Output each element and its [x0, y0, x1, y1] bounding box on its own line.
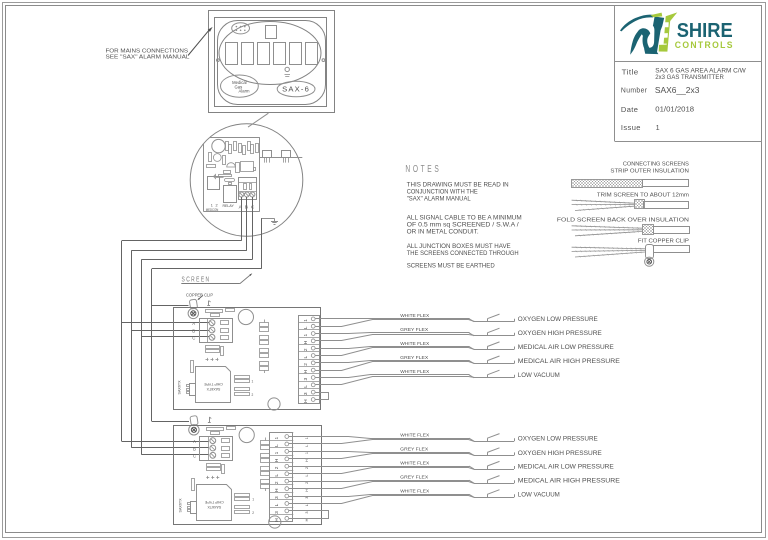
svg-text:2x3 GAS TRANSMITTER: 2x3 GAS TRANSMITTER [655, 74, 724, 81]
svg-text:1: 1 [305, 437, 309, 439]
svg-text:FIT COPPER CLIP: FIT COPPER CLIP [638, 239, 689, 245]
svg-text:L: L [305, 504, 309, 506]
svg-text:2: 2 [303, 348, 309, 351]
svg-text:GREY FLEX: GREY FLEX [400, 475, 429, 481]
svg-text:A: A [193, 439, 196, 444]
svg-text:WHITE FLEX: WHITE FLEX [400, 341, 430, 347]
svg-text:A: A [192, 321, 195, 326]
svg-text:MEDICAL AIR LOW PRESSURE: MEDICAL AIR LOW PRESSURE [518, 344, 615, 351]
svg-text:H: H [305, 489, 309, 492]
svg-text:CHIP TYPE: CHIP TYPE [203, 382, 222, 386]
svg-text:FOLD SCREEN BACK OVER INSULATI: FOLD SCREEN BACK OVER INSULATION [557, 217, 689, 223]
svg-text:1: 1 [274, 451, 280, 454]
svg-text:3: 3 [274, 496, 280, 499]
svg-text:THIS DRAWING MUST BE READ IN: THIS DRAWING MUST BE READ IN [407, 182, 509, 189]
svg-text:SAX-6: SAX-6 [282, 85, 310, 94]
svg-text:C: C [192, 335, 195, 340]
svg-text:WHITE FLEX: WHITE FLEX [400, 369, 430, 375]
svg-text:SCREEN: SCREEN [182, 275, 211, 284]
svg-text:GREY FLEX: GREY FLEX [400, 327, 429, 333]
svg-text:1: 1 [656, 123, 660, 132]
svg-text:OXYGEN HIGH PRESSURE: OXYGEN HIGH PRESSURE [518, 330, 603, 337]
svg-text:1: 1 [303, 319, 309, 322]
svg-text:L: L [305, 474, 309, 476]
svg-text:FOR MAINS CONNECTIONS: FOR MAINS CONNECTIONS [106, 48, 189, 54]
svg-text:H: H [305, 518, 309, 521]
svg-text:LOW VACUUM: LOW VACUUM [518, 492, 560, 499]
svg-text:SCREENS MUST BE EARTHED: SCREENS MUST BE EARTHED [407, 263, 496, 270]
svg-text:CHIP TYPE: CHIP TYPE [204, 500, 223, 504]
svg-text:1: 1 [252, 380, 254, 384]
svg-text:2: 2 [303, 363, 309, 366]
svg-text:2: 2 [216, 204, 218, 208]
svg-text:MEDCON: MEDCON [206, 208, 219, 212]
svg-text:STRIP OUTER INSULATION: STRIP OUTER INSULATION [610, 169, 689, 175]
svg-text:H: H [274, 458, 280, 462]
svg-text:Date: Date [621, 105, 639, 114]
svg-text:CONJUNCTION WITH THE: CONJUNCTION WITH THE [407, 189, 478, 196]
svg-text:CONNECTING SCREENS: CONNECTING SCREENS [623, 162, 689, 168]
svg-text:1: 1 [274, 436, 280, 439]
svg-text:Number: Number [621, 86, 648, 95]
svg-text:L: L [303, 326, 309, 329]
svg-text:3: 3 [303, 392, 309, 395]
svg-text:MEDICAL AIR HIGH PRESSURE: MEDICAL AIR HIGH PRESSURE [518, 478, 621, 485]
svg-text:SHIRE: SHIRE [677, 19, 733, 42]
svg-text:ALL JUNCTION BOXES MUST HAVE: ALL JUNCTION BOXES MUST HAVE [407, 243, 511, 250]
svg-text:OR IN METAL CONDUIT.: OR IN METAL CONDUIT. [407, 228, 479, 235]
svg-text:3: 3 [274, 511, 280, 514]
svg-text:WHITE FLEX: WHITE FLEX [400, 460, 430, 466]
svg-text:OXYGEN LOW PRESSURE: OXYGEN LOW PRESSURE [518, 316, 599, 323]
svg-text:B: B [192, 329, 195, 334]
svg-text:H: H [303, 370, 309, 374]
svg-text:NOTES: NOTES [405, 163, 441, 175]
svg-text:SAX6TX: SAX6TX [178, 498, 182, 513]
svg-text:"SAX" ALARM MANUAL: "SAX" ALARM MANUAL [407, 196, 472, 203]
svg-text:2: 2 [274, 481, 280, 484]
svg-text:RELAY: RELAY [222, 203, 234, 208]
svg-text:B: B [193, 447, 196, 452]
svg-text:L: L [274, 444, 280, 447]
svg-text:2: 2 [252, 393, 254, 397]
svg-text:Issue: Issue [621, 123, 641, 132]
svg-text:COPPER CLIP: COPPER CLIP [186, 293, 213, 299]
svg-text:TRIM SCREEN TO ABOUT 12mm: TRIM SCREEN TO ABOUT 12mm [597, 192, 689, 198]
svg-text:3: 3 [303, 377, 309, 380]
svg-text:Alarm: Alarm [239, 89, 250, 94]
svg-text:GREY FLEX: GREY FLEX [400, 447, 429, 453]
svg-text:1: 1 [305, 452, 309, 454]
svg-text:1: 1 [211, 204, 213, 208]
svg-text:MEDICAL AIR HIGH PRESSURE: MEDICAL AIR HIGH PRESSURE [518, 358, 621, 365]
svg-text:SAX6TX: SAX6TX [207, 505, 221, 509]
svg-text:H: H [274, 488, 280, 492]
svg-text:ALL SIGNAL CABLE TO BE A MINIM: ALL SIGNAL CABLE TO BE A MINIMUM [407, 214, 522, 221]
svg-text:2: 2 [274, 466, 280, 469]
svg-text:THE SCREENS CONNECTED THROUGH: THE SCREENS CONNECTED THROUGH [407, 250, 519, 257]
svg-text:L: L [303, 385, 309, 388]
svg-text:01/01/2018: 01/01/2018 [655, 104, 694, 113]
svg-text:WHITE FLEX: WHITE FLEX [400, 489, 430, 495]
svg-text:H: H [305, 459, 309, 462]
svg-text:SAX6__2x3: SAX6__2x3 [655, 85, 700, 95]
svg-text:L: L [303, 355, 309, 358]
svg-text:2: 2 [252, 511, 254, 515]
svg-text:H: H [303, 340, 309, 344]
svg-text:WHITE FLEX: WHITE FLEX [400, 433, 430, 439]
svg-text:L: L [274, 503, 280, 506]
svg-text:2: 2 [305, 467, 309, 469]
svg-text:CONTROLS: CONTROLS [675, 40, 734, 51]
svg-text:OXYGEN HIGH PRESSURE: OXYGEN HIGH PRESSURE [518, 450, 603, 457]
svg-text:WHITE FLEX: WHITE FLEX [400, 313, 430, 319]
svg-text:SEE "SAX" ALARM MANUAL: SEE "SAX" ALARM MANUAL [106, 55, 190, 61]
svg-text:SAX6TX: SAX6TX [178, 380, 182, 395]
svg-text:H: H [303, 399, 309, 403]
svg-text:2: 2 [305, 482, 309, 484]
svg-text:Title: Title [622, 68, 639, 77]
svg-text:OXYGEN LOW PRESSURE: OXYGEN LOW PRESSURE [518, 436, 599, 443]
svg-text:OF 0.5 mm sq SCREENED / S.W.A: OF 0.5 mm sq SCREENED / S.W.A / [407, 221, 519, 228]
svg-text:L: L [274, 474, 280, 477]
svg-text:GREY FLEX: GREY FLEX [400, 355, 429, 361]
svg-text:3: 3 [305, 497, 309, 499]
svg-text:1: 1 [252, 498, 254, 502]
svg-text:3: 3 [305, 512, 309, 514]
svg-text:LOW VACUUM: LOW VACUUM [518, 372, 560, 379]
svg-text:L: L [305, 445, 309, 447]
svg-text:SAX6TX: SAX6TX [206, 387, 220, 391]
svg-text:C: C [193, 453, 196, 458]
svg-text:H: H [274, 518, 280, 522]
svg-text:MEDICAL AIR LOW PRESSURE: MEDICAL AIR LOW PRESSURE [518, 463, 615, 470]
svg-text:1: 1 [303, 333, 309, 336]
